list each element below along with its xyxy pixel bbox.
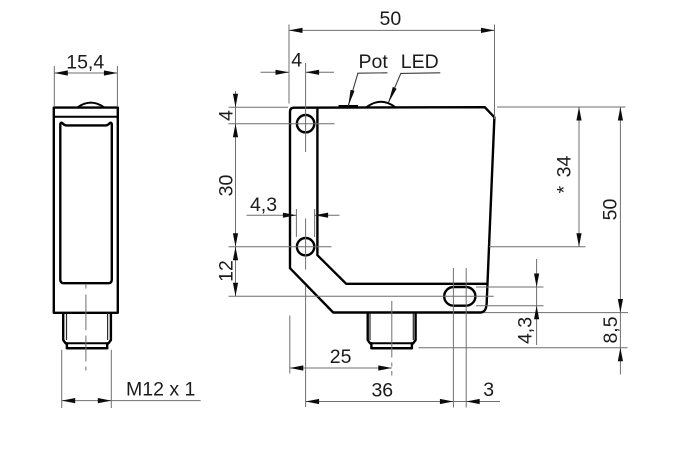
svg-text:4: 4 bbox=[291, 50, 302, 72]
top hole horizontal centerline bbox=[229, 123, 335, 125]
dimension 15,4 line bbox=[54, 72, 117, 74]
dimension 36 and 3 line bbox=[306, 401, 500, 403]
dimension 50 top extension line left bbox=[288, 25, 290, 104]
dimension 25 line bbox=[290, 367, 392, 369]
dimension 36 arrow left bbox=[306, 399, 320, 404]
dimension 50 right line bbox=[619, 107, 621, 313]
svg-text:4: 4 bbox=[215, 110, 237, 121]
dimension 4 top line with outside arrows bbox=[261, 71, 290, 73]
dimension M12x1 extension lines bbox=[61, 350, 63, 408]
svg-text:36: 36 bbox=[371, 379, 393, 401]
slot bottom edge extension right bbox=[476, 305, 544, 307]
svg-text:8,5: 8,5 bbox=[600, 316, 622, 343]
dimension *34 arrow bottom (down) bbox=[576, 233, 581, 247]
dimension 4 top arrow right bbox=[306, 70, 320, 75]
dimension 30 text (rotated) bbox=[215, 175, 237, 197]
svg-text:15,4: 15,4 bbox=[66, 52, 104, 74]
svg-text:M12 x 1: M12 x 1 bbox=[126, 378, 195, 400]
dimension 50 top arrow left bbox=[289, 28, 303, 33]
dimension 50 top extension line right bbox=[494, 25, 496, 120]
main body outline bbox=[290, 107, 494, 312]
bottom hole centerline extension right bbox=[489, 246, 586, 248]
top edge extension line to left bbox=[229, 106, 289, 108]
dimension *34 line bbox=[578, 107, 580, 247]
dimension 8,5 line bbox=[619, 313, 621, 375]
dimension 15,4 arrow right bbox=[104, 70, 118, 75]
dimension 50 right arrow top (up) bbox=[618, 107, 623, 121]
dimension 25 arrow right bbox=[378, 365, 392, 370]
dimension 50 right arrow bottom (down) bbox=[618, 299, 623, 313]
main connector M12 plug sides bbox=[368, 313, 370, 343]
dimension 12 top arrow (up) bbox=[233, 247, 238, 261]
bottom hole vertical centerline bbox=[305, 219, 307, 270]
dimension 36 arrow right bbox=[440, 399, 454, 404]
dimension 4 top arrow left bbox=[276, 70, 290, 75]
dimension 12 bottom arrow (down) bbox=[233, 283, 238, 297]
svg-text:* 34: * 34 bbox=[554, 156, 576, 194]
dimension 4,3 hole extension lines bbox=[295, 209, 297, 237]
slot arc center extension lines down bbox=[452, 268, 454, 408]
main connector thread inner lines bbox=[369, 314, 371, 340]
dimension 4,3 hole line bbox=[247, 214, 297, 216]
left view body outline bbox=[54, 108, 118, 313]
main connector centerline bbox=[391, 301, 393, 376]
dimension 8,5 arrow (outside, up) bbox=[618, 348, 623, 362]
dimension 4 left text (rotated) bbox=[215, 110, 237, 121]
dimension 4,3 slot text (rotated) bbox=[515, 317, 537, 344]
label Pot leader arrow bbox=[348, 90, 354, 107]
bottom hole horizontal centerline left bbox=[229, 246, 332, 248]
dimension 4,3 slot arrow bottom (outside, up) bbox=[534, 306, 539, 320]
bottom body edge extension right bbox=[484, 312, 628, 314]
label Pot leader line bbox=[348, 73, 387, 106]
main connector end cap bbox=[370, 342, 413, 344]
left view connector end cap bbox=[66, 342, 109, 344]
top hole vertical centerline bbox=[305, 63, 307, 152]
dimension 3 arrow (outside, left-pointing) bbox=[466, 399, 480, 404]
dimension 15,4 arrow left bbox=[54, 70, 68, 75]
svg-text:25: 25 bbox=[330, 346, 352, 368]
mounting flange inner step line bbox=[317, 109, 487, 284]
left view lens dome bbox=[78, 103, 105, 108]
left vertical dimension chain line bbox=[235, 91, 237, 296]
svg-text:50: 50 bbox=[380, 8, 402, 30]
svg-text:30: 30 bbox=[215, 175, 237, 197]
label LED leader arrow bbox=[388, 87, 396, 103]
svg-text:3: 3 bbox=[483, 379, 494, 401]
left view connector M12 plug sides bbox=[63, 313, 65, 343]
potentiometer mark on top face bbox=[339, 105, 359, 107]
svg-text:Pot: Pot bbox=[359, 51, 389, 73]
dimension 50 top line bbox=[289, 29, 495, 31]
dimension M12x1 line bbox=[62, 400, 201, 402]
label LED leader line bbox=[388, 73, 440, 103]
left view connector thread inner lines bbox=[66, 314, 68, 340]
slot top edge extension right bbox=[476, 286, 544, 288]
left view front window outline bbox=[60, 123, 112, 283]
dimension 15,4 extension lines bbox=[53, 66, 55, 106]
LED dome on top face bbox=[367, 102, 396, 107]
connector end extension line right bbox=[419, 347, 628, 349]
dimension 8,5 text (rotated) bbox=[600, 316, 622, 343]
dimension 4,3 slot line bbox=[536, 259, 538, 345]
left view top band line bbox=[54, 116, 118, 118]
dimension 4 left arrow top (outside, down) bbox=[233, 94, 238, 108]
slot horizontal centerline bbox=[229, 295, 494, 297]
dimension 4 left arrow bottom / 30 top arrow (up) bbox=[233, 124, 238, 138]
slotted hole bbox=[444, 287, 475, 306]
svg-text:50: 50 bbox=[600, 199, 622, 221]
dimension *34 arrow top (up) bbox=[576, 107, 581, 121]
dimension 4,3 slot arrow top (outside, down) bbox=[534, 274, 539, 288]
mounting hole top bbox=[297, 115, 314, 132]
dimension M12x1 arrow left bbox=[62, 398, 75, 403]
body left edge extension down bbox=[289, 316, 291, 374]
dimension 50 right text (rotated) bbox=[600, 199, 622, 221]
dimension 4,3 hole arrow left bbox=[283, 213, 297, 218]
dimension *34 text (rotated) bbox=[554, 156, 576, 194]
svg-text:12: 12 bbox=[215, 260, 237, 282]
dimension 4,3 hole arrow right bbox=[315, 213, 329, 218]
hole centerline extension down bbox=[305, 286, 307, 407]
dimension 30 bottom arrow (down) bbox=[233, 233, 238, 247]
dimension 50 top arrow right bbox=[481, 28, 495, 33]
dimension M12x1 arrow right bbox=[98, 398, 112, 403]
svg-text:4,3: 4,3 bbox=[250, 194, 277, 216]
mounting hole bottom bbox=[297, 238, 314, 255]
svg-text:4,3: 4,3 bbox=[515, 317, 537, 344]
svg-text:LED: LED bbox=[401, 51, 439, 73]
left view centerline bbox=[85, 284, 87, 371]
dimension 25 arrow left bbox=[290, 365, 304, 370]
top edge extension line to right bbox=[497, 106, 626, 108]
dimension 12 text (rotated) bbox=[215, 260, 237, 282]
